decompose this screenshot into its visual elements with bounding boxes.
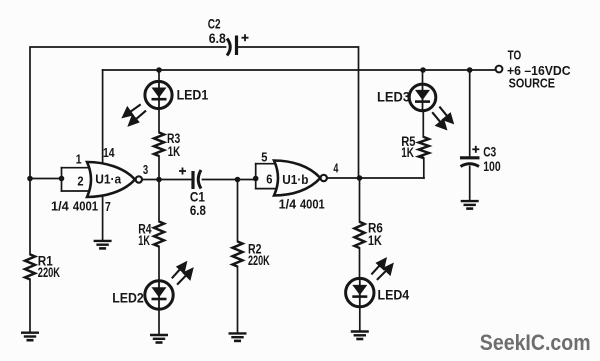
svg-text:LED3: LED3 — [377, 90, 410, 105]
svg-text:14: 14 — [103, 145, 115, 160]
svg-text:6: 6 — [266, 172, 272, 187]
svg-text:1K: 1K — [168, 144, 181, 159]
svg-text:5: 5 — [261, 149, 268, 164]
svg-text:4001: 4001 — [300, 197, 325, 212]
svg-text:SeekIC.com: SeekIC.com — [480, 330, 591, 355]
svg-text:C2: C2 — [208, 17, 221, 32]
svg-text:1K: 1K — [401, 145, 414, 160]
svg-text:1: 1 — [76, 152, 82, 167]
svg-text:U1·b: U1·b — [282, 172, 308, 187]
svg-text:4001: 4001 — [73, 198, 98, 213]
svg-text:4: 4 — [333, 161, 338, 176]
svg-text:TO: TO — [508, 49, 522, 63]
svg-text:LED1: LED1 — [177, 87, 209, 102]
svg-text:C3: C3 — [483, 145, 496, 160]
svg-text:3: 3 — [143, 162, 148, 177]
svg-text:1/4: 1/4 — [51, 199, 70, 214]
svg-text:2: 2 — [77, 174, 83, 189]
svg-text:220K: 220K — [38, 265, 60, 280]
svg-text:1K: 1K — [138, 233, 150, 248]
svg-text:6.8: 6.8 — [190, 203, 206, 218]
svg-text:SOURCE: SOURCE — [509, 77, 555, 91]
svg-text:6.8: 6.8 — [209, 31, 226, 46]
svg-text:100: 100 — [483, 159, 501, 174]
svg-text:LED4: LED4 — [378, 288, 410, 303]
svg-text:U1·a: U1·a — [95, 172, 122, 187]
svg-text:LED2: LED2 — [112, 290, 144, 305]
svg-text:1K: 1K — [368, 233, 382, 248]
svg-text:220K: 220K — [248, 253, 270, 268]
svg-text:7: 7 — [105, 199, 111, 214]
svg-text:1/4: 1/4 — [279, 197, 297, 212]
